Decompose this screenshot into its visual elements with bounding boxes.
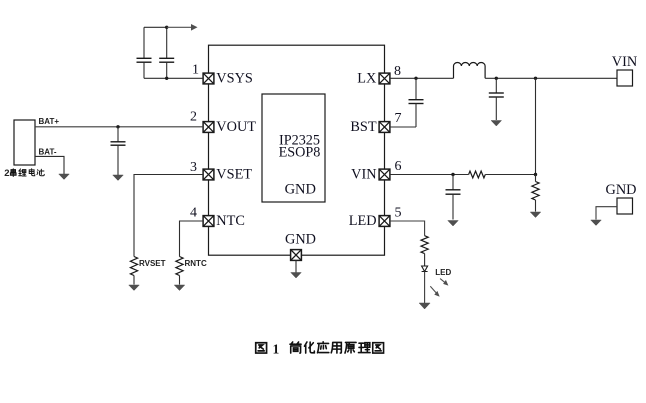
wire LED to ground arrow [424, 272, 426, 304]
svg-text:LX: LX [357, 70, 377, 86]
svg-text:ESOP8: ESOP8 [279, 145, 321, 161]
junction output cap [495, 77, 498, 80]
svg-text:VOUT: VOUT [216, 119, 256, 135]
arrow VSYS net flag [191, 24, 198, 31]
pin 3 VSET [203, 169, 214, 180]
wire R4 to ground [535, 200, 537, 212]
svg-text:4: 4 [190, 206, 197, 221]
svg-text:2: 2 [4, 168, 9, 179]
wire inductor to VIN box [485, 77, 617, 79]
svg-text:VIN: VIN [612, 54, 637, 70]
wire VSYS pin to caps [144, 77, 203, 79]
wire R3 to junction [485, 174, 535, 176]
LED emission arrow 1 [440, 279, 447, 285]
junction cap bottoms [165, 77, 168, 80]
wire VSET to RVSET [134, 175, 203, 257]
svg-text:VSET: VSET [216, 167, 252, 183]
wire GND pin down [295, 260, 297, 272]
capacitor C1 [137, 27, 152, 78]
capacitor C6 VIN [446, 175, 461, 220]
capacitor C5 output [489, 78, 504, 120]
svg-text:5: 5 [395, 206, 402, 221]
battery BT1 2-series li-ion [14, 120, 35, 165]
ground BAT- [59, 174, 70, 180]
svg-text:RVSET: RVSET [139, 259, 166, 268]
svg-text:1: 1 [192, 63, 199, 78]
resistor RNTC [176, 257, 183, 276]
wire BAT+ to VOUT pin [35, 126, 203, 128]
wire BAT- down [35, 156, 64, 174]
pin 6 VIN [379, 169, 390, 180]
wire R5 to LED [424, 254, 426, 266]
capacitor C3 battery [111, 127, 126, 176]
wire LX to inductor [390, 77, 454, 79]
svg-text:NTC: NTC [216, 213, 245, 229]
svg-text:7: 7 [395, 111, 402, 126]
wire junction to R4 [535, 175, 537, 182]
wire cap top rail [144, 26, 167, 28]
svg-text:6: 6 [395, 159, 402, 174]
resistor RVSET [130, 257, 137, 276]
pin 7 BST [379, 122, 390, 133]
junction VIN cap [451, 173, 454, 176]
wire RNTC to ground [179, 276, 181, 285]
resistor R5 LED series [421, 236, 428, 254]
ground under C5 [491, 121, 502, 127]
svg-text:3: 3 [190, 160, 197, 175]
junction BAT+ cap [116, 125, 119, 128]
resistor R4 bleeder [532, 182, 539, 201]
junction top rail [165, 26, 168, 29]
wire GND terminal [596, 207, 617, 220]
wire LED pin to R5 [390, 221, 425, 236]
svg-text:BAT-: BAT- [39, 148, 57, 157]
svg-text:1: 1 [273, 342, 280, 357]
LED emission arrow 2 [430, 286, 438, 295]
U1 inner label box [262, 94, 325, 202]
junction VIN row [534, 173, 537, 176]
svg-text:RNTC: RNTC [185, 259, 207, 268]
wire RVSET to ground [133, 276, 135, 285]
ground GND terminal [591, 220, 602, 226]
ground under C3 [113, 175, 124, 181]
pin 4 NTC [203, 216, 214, 227]
junction LX BST cap [414, 77, 417, 80]
wire VIN pin to RC [390, 174, 469, 176]
IC U1 IP2325 ESOP8 body outline [209, 45, 385, 255]
resistor R3 VIN filter [469, 171, 486, 178]
svg-text:GND: GND [285, 231, 316, 247]
svg-text:LED: LED [349, 213, 377, 229]
pin 1 VSYS [203, 73, 214, 84]
ground under R4 [530, 212, 541, 218]
capacitor C4 bootstrap [409, 78, 424, 127]
svg-text:GND: GND [285, 182, 316, 198]
label 2串锂电池 text [10, 169, 44, 177]
wire BST cap to pin7 [390, 126, 416, 128]
svg-text:VSYS: VSYS [216, 71, 253, 87]
svg-text:BST: BST [350, 119, 376, 135]
ground IC GND [291, 273, 302, 279]
pin GND bottom [291, 250, 302, 261]
wire to VSYS net arrow [167, 26, 192, 28]
svg-text:LED: LED [435, 268, 451, 277]
ground RNTC [174, 285, 185, 291]
wire NTC to RNTC [180, 221, 204, 257]
ground under C6 [448, 221, 459, 227]
pin 2 VOUT [203, 122, 214, 133]
pin 5 LED [379, 216, 390, 227]
junction VIN vertical [534, 77, 537, 80]
svg-text:VIN: VIN [351, 167, 376, 183]
LED D1 symbol [422, 266, 428, 272]
pin 8 LX [379, 73, 390, 84]
terminal VIN box [617, 70, 633, 86]
svg-text:GND: GND [606, 182, 637, 198]
inductor L1 [454, 62, 486, 78]
wire VIN feed vertical [535, 78, 537, 174]
capacitor C2 [159, 27, 174, 78]
ground RVSET [129, 285, 140, 291]
svg-text:8: 8 [394, 64, 401, 79]
ground LED cathode arrow [419, 303, 430, 309]
svg-text:2: 2 [190, 109, 197, 124]
svg-text:BAT+: BAT+ [39, 117, 60, 126]
terminal GND box [617, 198, 633, 214]
caption 简化应用原理图 [290, 342, 384, 353]
caption 图 [256, 343, 267, 353]
